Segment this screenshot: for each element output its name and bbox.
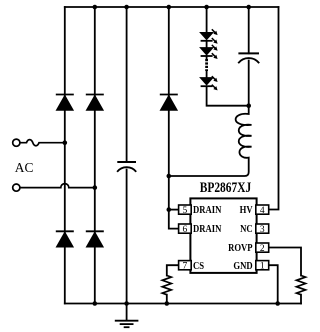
- pin 1 box: [256, 261, 269, 270]
- svg-text:HV: HV: [240, 204, 253, 216]
- op-amp U1 BP2867XJ body: [190, 198, 256, 273]
- svg-text:CS: CS: [193, 260, 204, 272]
- svg-text:AC: AC: [15, 160, 34, 175]
- pin 6 box: [179, 224, 192, 233]
- diode D1: [56, 95, 74, 111]
- wire top rail: [65, 6, 279, 8]
- svg-text:GND: GND: [233, 260, 252, 272]
- wire R1 bottom lead: [166, 295, 168, 304]
- resistor R1: [162, 276, 171, 295]
- node inductor to drain junction: [167, 174, 172, 179]
- svg-text:DRAIN: DRAIN: [193, 223, 221, 235]
- capacitor C1: [117, 162, 136, 172]
- wire CS to R1: [167, 265, 179, 275]
- diode D4: [86, 231, 104, 247]
- wire dashed LED continuation: [205, 59, 208, 71]
- wire R2 bottom lead: [300, 295, 302, 304]
- svg-text:4: 4: [260, 206, 265, 216]
- wire input cap branch: [126, 7, 128, 304]
- wire bottom rail: [65, 303, 301, 305]
- wire vertical line 2 (bridge right leg): [94, 7, 96, 304]
- svg-text:NC: NC: [240, 223, 253, 235]
- wire ROVP to R2: [269, 248, 301, 276]
- inductor L1: [169, 106, 252, 176]
- pin 7 box: [179, 261, 192, 270]
- svg-text:6: 6: [183, 225, 188, 235]
- wire GND pin to rail: [269, 265, 278, 303]
- wire vertical line 1 (bridge left leg): [64, 7, 66, 304]
- AC terminal 1: [13, 139, 20, 146]
- svg-text:5: 5: [183, 206, 188, 216]
- pin 5 box: [179, 205, 192, 214]
- wire LED branch: [207, 7, 249, 106]
- pin 4 box: [256, 205, 269, 214]
- ground: [115, 304, 139, 328]
- wire pin5 stub: [169, 209, 179, 211]
- svg-text:1: 1: [260, 262, 265, 272]
- node inductor top junction: [246, 103, 251, 108]
- svg-text:7: 7: [183, 262, 188, 272]
- fuse F1: [20, 140, 65, 146]
- svg-text:ROVP: ROVP: [228, 242, 253, 254]
- wire AC2 with hop over line 1: [20, 184, 95, 188]
- LED string D7: [200, 45, 218, 59]
- wire output cap branch: [248, 7, 250, 106]
- wire HV right edge: [269, 7, 279, 210]
- svg-text:2: 2: [260, 244, 265, 254]
- node AC2 junction: [93, 185, 98, 190]
- resistor R2: [297, 276, 306, 295]
- svg-text:BP2867XJ: BP2867XJ: [200, 179, 252, 196]
- LED string D6: [200, 29, 218, 44]
- diode D2: [86, 95, 104, 111]
- node AC1 junction: [63, 140, 68, 145]
- node top rail junctions: [93, 5, 252, 10]
- capacitor C2: [238, 53, 259, 63]
- wire drain branch: [169, 7, 179, 229]
- node bottom rail junctions: [93, 301, 281, 306]
- pin 2 box: [256, 243, 269, 252]
- svg-text:3: 3: [260, 225, 265, 235]
- diode D5 freewheeling: [160, 95, 178, 111]
- LED string D8: [200, 76, 218, 90]
- AC terminal 2: [13, 184, 20, 191]
- pin 3 box: [256, 224, 269, 233]
- diode D3: [56, 231, 74, 247]
- svg-text:DRAIN: DRAIN: [193, 204, 221, 216]
- node pin5 junction: [167, 207, 172, 212]
